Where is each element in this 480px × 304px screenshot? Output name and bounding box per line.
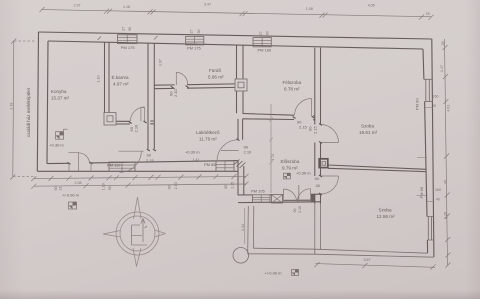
E glyph with arrow — [132, 219, 148, 246]
tick at szoba12 top right — [417, 156, 427, 158]
svg-text:Fürdő: Fürdő — [209, 68, 221, 73]
svg-text:90: 90 — [108, 186, 112, 190]
svg-text:15.37 m²: 15.37 m² — [51, 95, 70, 100]
Eloszoba top wall — [243, 114, 315, 120]
svg-text:9.79 m²: 9.79 m² — [282, 165, 298, 170]
level symbol 0.00 porch — [292, 270, 299, 276]
svg-text:27: 27 — [190, 30, 194, 34]
entrance pier — [272, 195, 283, 203]
svg-text:1.97: 1.97 — [159, 59, 163, 66]
porch column — [233, 248, 249, 264]
svg-text:4.05: 4.05 — [368, 3, 375, 7]
svg-text:40: 40 — [432, 104, 436, 108]
Szoba12 west wall — [315, 204, 321, 255]
window PM105 porch — [253, 195, 271, 203]
svg-text:2.19: 2.19 — [9, 103, 13, 110]
svg-text:28: 28 — [441, 42, 445, 46]
Szoba12 south wall — [315, 249, 434, 257]
bottom chain 1 — [34, 176, 246, 178]
svg-text:+0.30 m: +0.30 m — [296, 171, 311, 176]
svg-text:+0.30 m: +0.30 m — [185, 149, 200, 154]
svg-text:1.10: 1.10 — [97, 76, 101, 83]
svg-text:1.44: 1.44 — [241, 224, 245, 231]
left wall inner — [47, 41, 48, 164]
eloszoba level symbol — [283, 173, 290, 179]
wall Szoba19|Szoba12 — [328, 165, 426, 172]
flue at E.kamra corner — [104, 113, 116, 125]
svg-text:90: 90 — [54, 187, 58, 191]
svg-text:40: 40 — [436, 197, 440, 201]
level symbol 0.00 left — [69, 202, 77, 209]
door Eloszoba|Szoba12 — [321, 176, 339, 194]
porch bottom — [248, 248, 315, 254]
svg-text:PM 175: PM 175 — [187, 46, 202, 51]
svg-text:160: 160 — [435, 188, 441, 192]
svg-text:1.10: 1.10 — [102, 183, 106, 190]
svg-text:3.47: 3.47 — [204, 3, 211, 7]
svg-text:2.10: 2.10 — [134, 124, 139, 133]
svg-text:2.97: 2.97 — [74, 3, 81, 7]
svg-text:PM 175: PM 175 — [121, 45, 136, 50]
svg-text:1.16: 1.16 — [123, 5, 130, 9]
svg-text:3.67: 3.67 — [364, 258, 371, 262]
svg-text:2.08: 2.08 — [75, 181, 82, 185]
window PM110 south — [109, 162, 135, 171]
svg-text:Lakóétkező: Lakóétkező — [196, 130, 220, 135]
window PM90 east lower — [427, 217, 434, 241]
svg-text:11.76 m²: 11.76 m² — [199, 136, 217, 141]
svg-text:5.66 m²: 5.66 m² — [208, 74, 224, 79]
svg-text:8.78 m²: 8.78 m² — [284, 86, 300, 91]
svg-text:2.15: 2.15 — [298, 206, 302, 213]
svg-text:90: 90 — [197, 30, 201, 34]
svg-text:Szoba: Szoba — [379, 208, 392, 213]
svg-text:PM 90: PM 90 — [419, 186, 424, 198]
konyha level symbol — [56, 129, 68, 139]
svg-text:Félszoba: Félszoba — [283, 80, 302, 85]
svg-text:160: 160 — [433, 95, 439, 99]
svg-text:85: 85 — [224, 185, 228, 189]
svg-text:21: 21 — [59, 187, 63, 191]
door D1 Konyha south — [69, 152, 92, 171]
svg-text:1.47: 1.47 — [440, 65, 444, 72]
svg-text:40: 40 — [316, 183, 321, 188]
window PM175 no2 — [186, 36, 204, 45]
window PM175 no1 — [118, 35, 138, 44]
svg-text:+/-0.00 m: +/-0.00 m — [62, 193, 80, 198]
bottom chain 2 — [34, 184, 246, 186]
svg-text:+/-0.00 m: +/-0.00 m — [265, 271, 283, 276]
svg-text:PM 110: PM 110 — [107, 163, 121, 168]
svg-text:2.15: 2.15 — [299, 124, 308, 129]
svg-text:78: 78 — [426, 12, 430, 16]
svg-text:12.96 m²: 12.96 m² — [377, 214, 396, 219]
bottom-right chain — [315, 264, 435, 268]
svg-text:2.15: 2.15 — [313, 125, 318, 134]
svg-text:27: 27 — [259, 31, 263, 35]
svg-text:1.20: 1.20 — [444, 212, 448, 219]
svg-text:PM 90: PM 90 — [415, 98, 420, 110]
svg-text:90: 90 — [168, 185, 172, 189]
junction ticks on top wall — [98, 36, 158, 40]
svg-text:90: 90 — [315, 176, 320, 181]
svg-text:családi ház melléképület: családi ház melléképület — [26, 87, 31, 137]
svg-text:PM 85: PM 85 — [204, 162, 216, 167]
door Konyha|Lako — [119, 151, 144, 173]
svg-text:É.kamra: É.kamra — [112, 74, 130, 80]
porch west dim — [244, 208, 246, 244]
entrance double door right — [297, 189, 310, 202]
svg-text:PM 160: PM 160 — [258, 48, 273, 53]
svg-text:90: 90 — [265, 31, 269, 35]
window PM160 — [253, 38, 271, 47]
wall Konyha|E.kamra — [105, 42, 110, 112]
wall Konyha|Lakoetkezo — [148, 43, 154, 149]
svg-text:4.01: 4.01 — [447, 105, 451, 112]
door jamb ticks — [68, 86, 323, 195]
porch left edge — [248, 206, 254, 254]
chimney flue square — [319, 159, 328, 168]
svg-text:Előszoba: Előszoba — [281, 159, 300, 164]
door Furdo — [176, 72, 187, 85]
wall Furdo|Felszoba — [237, 45, 244, 114]
E.kamra south wall — [116, 121, 154, 124]
window PM85 south — [216, 161, 234, 171]
Eloszoba/Szoba east wall — [315, 48, 321, 204]
left chain — [13, 41, 14, 177]
svg-text:1.74: 1.74 — [271, 154, 275, 161]
right wall inner — [423, 49, 428, 253]
top wall inner — [48, 41, 423, 49]
svg-text:2.10: 2.10 — [244, 149, 253, 154]
svg-text:PM 105: PM 105 — [251, 189, 266, 194]
svg-text:Szoba: Szoba — [361, 124, 374, 129]
inner dim Eloszoba — [270, 104, 272, 193]
flue at Furdo|Felszoba — [235, 79, 247, 91]
svg-text:1.41: 1.41 — [193, 158, 200, 162]
window dim ticks right wall upper — [425, 102, 433, 108]
window PM90 east upper — [424, 79, 433, 101]
door Lako|Eloszoba — [217, 140, 239, 161]
south wall outer — [37, 170, 238, 172]
entrance right jamb fill — [311, 195, 315, 203]
svg-text:2.25: 2.25 — [231, 182, 235, 189]
right chain — [445, 39, 448, 265]
left wall outer — [37, 32, 38, 171]
svg-text:2.10: 2.10 — [173, 88, 178, 97]
window dim ticks right wall lower — [417, 195, 434, 201]
door Felszoba|Eloszoba — [295, 99, 312, 116]
top wall outer — [39, 32, 432, 39]
svg-text:Konyha: Konyha — [51, 89, 67, 94]
south wall inner — [47, 161, 238, 164]
svg-text:40: 40 — [444, 180, 448, 184]
Eloszoba south wall — [238, 194, 321, 202]
door Eloszoba|Szoba19 — [321, 125, 339, 143]
Furdo south wall — [154, 84, 235, 89]
svg-text:2.10: 2.10 — [174, 182, 178, 189]
svg-text:90: 90 — [293, 209, 297, 213]
svg-text:90: 90 — [128, 27, 132, 31]
svg-text:2.15: 2.15 — [146, 158, 155, 163]
svg-text:4.97 m²: 4.97 m² — [113, 81, 129, 86]
svg-text:1.08: 1.08 — [306, 7, 313, 11]
svg-text:+0.30 m: +0.30 m — [49, 142, 64, 147]
corner hatch at Eloszoba west junction — [234, 160, 246, 169]
svg-text:19.61 m²: 19.61 m² — [359, 130, 378, 135]
right wall outer — [432, 39, 434, 257]
svg-text:27: 27 — [122, 27, 126, 31]
entrance double door left — [284, 189, 297, 202]
wall Lakoetkezo|Eloszoba — [238, 119, 243, 140]
Eloszoba west lower wall — [238, 161, 244, 196]
svg-text:90: 90 — [147, 153, 152, 158]
top chain — [42, 10, 431, 17]
entrance center leaf — [298, 185, 300, 201]
door E.kamra — [130, 107, 144, 121]
